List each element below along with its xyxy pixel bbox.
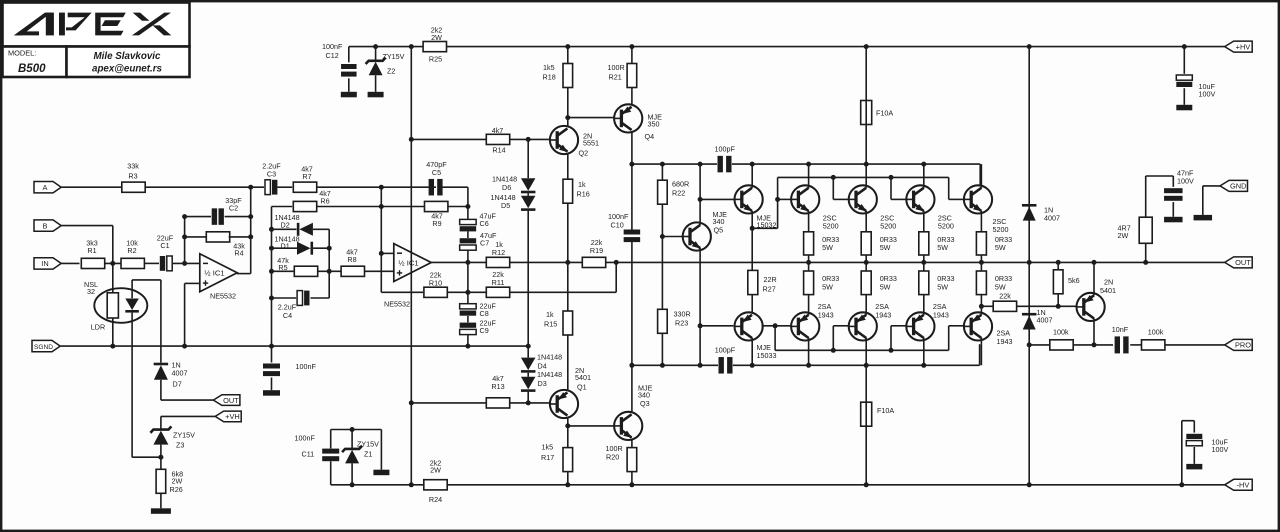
wire to 47nF — [1146, 175, 1174, 177]
tag PRO — [1225, 339, 1253, 350]
tag +VH — [215, 411, 241, 422]
LDR internal resistor — [107, 293, 118, 318]
junction D2 left — [269, 227, 274, 232]
svg-text:680R: 680R — [672, 179, 689, 188]
transistor MJE15033 — [735, 312, 763, 340]
resistor 5k6 — [1053, 270, 1063, 294]
op-amp IC1a NE5532 — [200, 254, 237, 292]
wire 4R7 up — [1145, 176, 1147, 217]
junction R5 left — [269, 269, 274, 274]
wire to R4 — [185, 236, 208, 238]
resistor R23 330R — [658, 309, 668, 333]
wire 10nF to 100k — [1130, 344, 1141, 346]
svg-text:4007: 4007 — [1037, 315, 1053, 324]
svg-text:5551: 5551 — [583, 138, 599, 147]
capacitor C6 47uF — [460, 219, 477, 224]
wire LDR to D7 top — [132, 279, 161, 281]
junction base tap 2 — [831, 175, 836, 180]
wire PRO line left — [1029, 344, 1050, 346]
wire R4 to output leg — [229, 236, 251, 238]
node Z3/R26/LDR — [158, 455, 163, 460]
diode D3 1N4148 — [521, 377, 536, 390]
wire riser up — [777, 177, 779, 228]
resistor R27 22R — [748, 270, 758, 294]
resistor R5 47k — [294, 266, 317, 276]
junction Z2 — [373, 44, 378, 49]
transistor Q5 MJE340 bias — [683, 222, 711, 250]
wire to Z1 — [351, 430, 353, 449]
transistor 2SA1943 #1 — [791, 312, 819, 340]
junction C10/lower rail — [629, 363, 634, 368]
svg-text:100pF: 100pF — [715, 144, 736, 153]
diode 1N4007 (lower clamp) — [1023, 316, 1036, 330]
capacitor 100pF (upper) — [718, 156, 723, 173]
svg-text:R23: R23 — [675, 318, 688, 327]
resistor R7 — [293, 182, 316, 192]
svg-text:½ IC1: ½ IC1 — [398, 258, 418, 267]
wire R3 to C3 — [145, 186, 264, 188]
wire R14 to Q2 base — [510, 138, 550, 140]
wire 0R33 #4 to output rail — [980, 255, 982, 262]
LDR internal diode — [125, 299, 139, 311]
wire -HV rail to C11 — [330, 461, 332, 485]
wire Q4 collector down to C10 — [631, 133, 633, 231]
junction Q2 collector/Q4 base — [565, 115, 570, 120]
wire base stub to 2SA1943-3 — [891, 325, 906, 327]
svg-text:F10A: F10A — [876, 108, 893, 117]
svg-text:R26: R26 — [170, 485, 183, 494]
ground under 10uF lower — [1186, 464, 1202, 470]
wire C10 down to lower rail — [631, 241, 633, 365]
svg-text:R5: R5 — [278, 263, 287, 272]
svg-text:C8: C8 — [480, 309, 489, 318]
transistor 2N5401 (protection) — [1077, 293, 1105, 321]
zener Z3 ZY15V — [150, 426, 171, 432]
capacitor C5 470pF — [429, 179, 434, 196]
wire R8 to IC1b plus — [365, 270, 394, 272]
fuse F10A (upper) — [861, 101, 872, 125]
capacitor C7 47uF — [460, 245, 477, 250]
wire -HV to 10uF branch — [1181, 421, 1183, 485]
svg-text:100V: 100V — [1199, 90, 1216, 99]
svg-text:R15: R15 — [544, 320, 557, 329]
svg-text:R22: R22 — [672, 188, 685, 197]
svg-text:5W: 5W — [937, 282, 948, 291]
capacitor 10uF 100V (lower) — [1186, 441, 1202, 446]
wire right rail B down — [328, 229, 330, 298]
svg-text:1k5: 1k5 — [542, 442, 554, 451]
wire R18 to top rail — [567, 47, 569, 64]
junction base stub 1 — [775, 197, 780, 202]
svg-text:R4: R4 — [234, 249, 243, 258]
tag OUT — [1225, 257, 1253, 268]
wire down to Z3 — [160, 416, 162, 429]
junction R23/lower rail — [660, 363, 665, 368]
wire C11/Z1 top rail — [331, 429, 382, 431]
wire 0R33 to 2SA1943 #3 emitter — [923, 295, 925, 315]
wire LDR diode cathode down to Z3 node — [131, 313, 133, 458]
resistor R13 4k7 — [486, 398, 509, 408]
wire 2SC5200 #4 collector — [980, 164, 982, 188]
svg-text:5W: 5W — [880, 243, 891, 252]
wire R13 to Q1 base — [510, 402, 550, 404]
wire 2SA1943 #3 collector — [923, 338, 925, 366]
wire to 22k — [981, 305, 993, 307]
svg-text:PRO: PRO — [1235, 341, 1251, 350]
wire B down to IN line — [112, 226, 114, 264]
op-amp IC1b NE5532 — [394, 244, 431, 282]
svg-text:5401: 5401 — [1100, 286, 1116, 295]
wire R26 to ground — [160, 493, 162, 508]
wire lower rail to fuse — [865, 365, 867, 402]
wire to MJE15033 base — [700, 325, 733, 327]
svg-text:ZY15V: ZY15V — [173, 431, 195, 440]
wire to R5 — [272, 270, 295, 272]
svg-text:1943: 1943 — [875, 311, 891, 320]
wire to R10 — [381, 291, 423, 293]
tag GND — [1220, 180, 1248, 191]
svg-text:100nF: 100nF — [295, 433, 316, 442]
wire 22k to 2N5401 base — [1017, 305, 1077, 307]
wire 2SC5200 #3 collector — [923, 164, 925, 188]
junction Q4 collector/upper rail — [629, 162, 634, 167]
capacitor 10nF — [1115, 336, 1120, 353]
zener Z1 ZY15V — [342, 446, 362, 452]
wire node to C8 — [467, 292, 469, 303]
wire +HV to fuse — [865, 47, 867, 101]
wire base stub to 2SC5200-3 — [891, 198, 906, 200]
wire 0R33 #3 to output rail — [923, 255, 925, 262]
wire base stub to 2SC5200-1 — [778, 198, 791, 200]
svg-text:R19: R19 — [590, 246, 603, 255]
svg-text:B: B — [43, 221, 48, 230]
svg-text:Q2: Q2 — [579, 149, 589, 158]
junction R21/top rail — [629, 44, 634, 49]
resistor R3 — [122, 182, 145, 192]
svg-text:1k: 1k — [546, 310, 554, 319]
junction R18/top rail — [565, 44, 570, 49]
svg-text:5W: 5W — [822, 243, 833, 252]
wire MJE15032 collector — [751, 164, 753, 188]
ground under C12 — [341, 92, 357, 98]
resistor 22k (protection) — [993, 301, 1016, 311]
zener Z2 ZY15V — [366, 58, 386, 64]
wire R27 to MJE15033 emitter — [751, 295, 753, 313]
wire fuse to -HV rail — [865, 426, 867, 485]
junction R22/Q5 base/R23 — [660, 234, 665, 239]
svg-text:5W: 5W — [995, 282, 1006, 291]
ground under 47nF — [1164, 217, 1183, 223]
capacitor C2 33pF — [212, 208, 217, 225]
wire GND stem — [1202, 186, 1204, 215]
svg-text:OUT: OUT — [1235, 258, 1251, 267]
wire 2SA1943 #4 collector — [980, 338, 982, 366]
tag OUT (mute) — [213, 395, 240, 406]
wire +VH tag to Z3 — [161, 415, 215, 417]
junction protection/output — [1092, 260, 1097, 265]
svg-text:Q3: Q3 — [640, 399, 650, 408]
resistor R12 1k — [486, 257, 509, 267]
wire lower base rail — [775, 349, 949, 351]
wire R22 to Q5 base node — [661, 204, 663, 236]
capacitor C8 22uF — [460, 304, 477, 309]
junction R4/output — [248, 234, 253, 239]
resistor R2 — [121, 258, 144, 268]
resistor 100k (right) — [1142, 340, 1165, 350]
svg-text:R20: R20 — [606, 453, 619, 462]
junction pnp base tap 2 — [831, 348, 836, 353]
wire upper rail right section — [732, 163, 980, 165]
junction D3/R13/Q1 — [526, 400, 531, 405]
wire to C4 — [272, 297, 297, 299]
transistor Q4 MJE350 — [614, 104, 642, 132]
node C1/feedback — [182, 261, 187, 266]
junction 2SC5200-1 collector — [806, 162, 811, 167]
resistor R15 1k — [563, 311, 573, 335]
wire Q5 emitter down — [699, 248, 701, 326]
wire SGND to D4 — [527, 346, 529, 358]
junction 10uF/-HV — [1179, 482, 1184, 487]
resistor 0R33 5W (upper #4) — [976, 232, 986, 255]
junction R10/R11/C8 — [465, 290, 470, 295]
wire protection collector to output rail — [1093, 262, 1095, 295]
svg-text:R1: R1 — [87, 246, 96, 255]
svg-text:1943: 1943 — [933, 311, 949, 320]
wire Z1 to -HV rail — [351, 463, 353, 484]
svg-text:Mile Slavkovic: Mile Slavkovic — [94, 51, 162, 62]
svg-text:ZY15V: ZY15V — [357, 440, 379, 449]
junction fuse/-HV rail — [864, 482, 869, 487]
svg-text:100V: 100V — [1177, 177, 1194, 186]
svg-text:D2: D2 — [281, 220, 290, 229]
resistor 0R33 5W (lower #2) — [861, 271, 871, 295]
wire base stub to 2SC5200-2 — [833, 198, 848, 200]
wire C12 to ground — [348, 78, 350, 92]
svg-text:Q1: Q1 — [577, 382, 587, 391]
wire up to output node — [615, 262, 617, 292]
svg-text:D4: D4 — [538, 361, 547, 370]
node A-line to IC1a output — [248, 185, 253, 190]
svg-text:5200: 5200 — [823, 221, 839, 230]
resistor R4 43k — [206, 232, 229, 242]
wire lower rail left section — [632, 364, 718, 366]
wire protection emitter to PRO line — [1093, 318, 1095, 345]
wire tap down 3 — [890, 177, 892, 199]
svg-text:B500: B500 — [18, 63, 46, 75]
wire R17 to bottom rail — [567, 472, 569, 485]
wire Q2 emitter to R16 — [567, 154, 569, 179]
junction 5k6/base — [1056, 304, 1061, 309]
svg-text:R25: R25 — [429, 55, 442, 64]
wire R7 to C5 (through junctions) — [317, 186, 436, 188]
junction C2 left — [182, 214, 187, 219]
svg-text:ZY15V: ZY15V — [383, 52, 405, 61]
svg-text:R12: R12 — [492, 248, 505, 257]
junction R4 left — [182, 234, 187, 239]
svg-text:100nF: 100nF — [296, 362, 317, 371]
svg-text:R14: R14 — [492, 145, 505, 154]
ground under 100nF — [263, 390, 280, 396]
svg-text:32: 32 — [87, 287, 95, 296]
wire riser down (pnp base) — [774, 326, 776, 351]
junction D6/Q2 base — [526, 137, 531, 142]
junction minus input — [379, 251, 384, 256]
resistor R8 4k7 — [341, 266, 364, 276]
ground at GND tag — [1194, 215, 1213, 221]
svg-text:C4: C4 — [283, 311, 292, 320]
svg-text:R6: R6 — [320, 197, 329, 206]
wire 0R33 lower #4 top — [980, 262, 982, 271]
resistor R25 2k2 2W — [423, 42, 446, 52]
resistor 0R33 5W (lower #4) — [976, 271, 986, 295]
wire rail to Z2 — [375, 47, 377, 61]
wire GND tag — [1203, 185, 1220, 187]
capacitor C1 22uF — [167, 256, 172, 271]
wire Z3 to R26 — [160, 445, 162, 469]
svg-text:C12: C12 — [326, 51, 339, 60]
junction supply bottom — [409, 482, 414, 487]
svg-text:1k: 1k — [578, 180, 586, 189]
svg-text:5401: 5401 — [575, 373, 591, 382]
wire stub — [751, 311, 753, 313]
diode D7 1N4007 — [154, 365, 168, 380]
svg-text:C6: C6 — [480, 219, 489, 228]
resistor R26 — [156, 469, 166, 493]
svg-text:10nF: 10nF — [1112, 325, 1129, 334]
wire Z2 to ground — [375, 75, 377, 92]
svg-text:D6: D6 — [502, 183, 511, 192]
wire C8 to C9 — [467, 316, 469, 323]
wire C5 right — [442, 186, 468, 188]
svg-text:350: 350 — [648, 119, 660, 128]
wire to Q3 base — [568, 425, 614, 427]
wire down to D6 — [527, 139, 529, 178]
wire R11 to output node — [510, 291, 617, 293]
junction emitter/PRO — [1092, 342, 1097, 347]
wire 0R33 #1 to output rail — [808, 255, 810, 262]
junction Z1/-HV rail — [350, 482, 355, 487]
svg-text:5W: 5W — [822, 282, 833, 291]
node R7/minus feed — [379, 185, 384, 190]
svg-text:R11: R11 — [492, 278, 505, 287]
junction 22k sense tap — [979, 304, 984, 309]
wire 0R33 lower #1 top — [808, 262, 810, 271]
junction R15/R16 node — [565, 260, 570, 265]
junction chain/SGND — [526, 344, 531, 349]
wire 47nF to ground — [1172, 202, 1174, 217]
junction Q5 collector/upper rail — [698, 162, 703, 167]
ground under Z2 — [368, 92, 384, 98]
svg-text:5W: 5W — [937, 243, 948, 252]
wire C7 to output line — [467, 250, 469, 262]
wire to R17 — [567, 426, 569, 448]
svg-text:5200: 5200 — [993, 225, 1009, 234]
svg-text:C1: C1 — [160, 241, 169, 250]
wire lower rail right section — [733, 364, 980, 366]
wire LDR diode anode up — [131, 280, 133, 298]
transistor 2SC5200 #1 — [791, 185, 819, 213]
capacitor 100nF (SGND) — [263, 364, 280, 369]
junction 2SC5200-3 collector — [921, 162, 926, 167]
wire A tag to R3 — [61, 186, 121, 188]
wire tap down 2 — [832, 177, 834, 199]
svg-text:Z3: Z3 — [176, 441, 184, 450]
capacitor C10 100nF — [624, 230, 641, 235]
svg-text:1N4148: 1N4148 — [537, 352, 562, 361]
svg-text:4007: 4007 — [172, 368, 188, 377]
wire 2SC5200 #3 emitter — [923, 211, 925, 232]
svg-text:R27: R27 — [763, 284, 776, 293]
svg-text:5k6: 5k6 — [1068, 276, 1080, 285]
resistor R16 1k — [563, 179, 573, 203]
wire node to R15 — [567, 262, 569, 311]
svg-text:C9: C9 — [480, 326, 489, 335]
svg-text:5200: 5200 — [880, 221, 896, 230]
input tag A — [34, 182, 61, 193]
svg-text:R16: R16 — [577, 190, 590, 199]
svg-text:D7: D7 — [173, 380, 182, 389]
wire C6 to C7 — [467, 232, 469, 239]
wire output to R10/R11 node — [467, 262, 469, 292]
wire output rail to 5k6 — [1057, 262, 1059, 269]
wire 0R33 to 2SA1943 #2 emitter — [865, 295, 867, 315]
junction R6/R9 to minus node — [379, 204, 384, 209]
wire +HV to 10uF — [1183, 47, 1185, 74]
wire Q4 emitter to R21 — [631, 87, 633, 104]
junction R13 feed — [409, 400, 414, 405]
transistor 2SA1943 #3 — [906, 312, 934, 340]
wire 100k to 10nF — [1073, 344, 1113, 346]
resistor 0R33 5W (lower #3) — [919, 271, 929, 295]
wire 47nF top stem — [1172, 176, 1174, 187]
svg-text:5W: 5W — [995, 243, 1006, 252]
ground under R26 — [151, 508, 171, 514]
svg-text:C3: C3 — [267, 170, 276, 179]
wire R1 to R2 — [105, 262, 121, 264]
junction R5 right — [327, 269, 332, 274]
wire to Q5 base — [662, 236, 682, 238]
wire IC1a output — [237, 273, 251, 275]
wire R16 to node — [567, 203, 569, 262]
wire to OUT tag — [161, 399, 214, 401]
wire top rail to ground — [380, 430, 382, 470]
fuse F10A (lower) — [861, 402, 872, 426]
wire to D2 — [272, 228, 297, 230]
svg-text:100nF: 100nF — [322, 42, 343, 51]
wire 2SC5200 #1 emitter — [808, 211, 810, 232]
wire rail A to R6 — [272, 206, 293, 208]
svg-text:100pF: 100pF — [715, 345, 736, 354]
wire R10 to R11 — [447, 291, 486, 293]
svg-text:15033: 15033 — [757, 351, 777, 360]
wire MJE15032 emitter down to R27 — [751, 228, 753, 270]
junction C9/SGND — [465, 344, 470, 349]
junction Z1 top — [350, 427, 355, 432]
wire SGND rail — [60, 345, 528, 347]
junction clamp/output — [1027, 260, 1032, 265]
wire C4 to right rail — [311, 297, 330, 299]
svg-text:+HV: +HV — [1236, 42, 1251, 51]
wire op-amp supply feed vertical — [410, 47, 412, 485]
transistor 2SC5200 #2 — [849, 185, 877, 213]
wire R13 feed — [411, 402, 486, 404]
resistor R11 22k — [486, 287, 509, 297]
wire R21 to top rail — [631, 47, 633, 64]
junction output rail #2 — [864, 260, 869, 265]
capacitor C12 100nF — [341, 64, 357, 69]
transistor Q2 2N5551 — [550, 126, 578, 154]
wire plus input down to SGND — [184, 283, 186, 346]
